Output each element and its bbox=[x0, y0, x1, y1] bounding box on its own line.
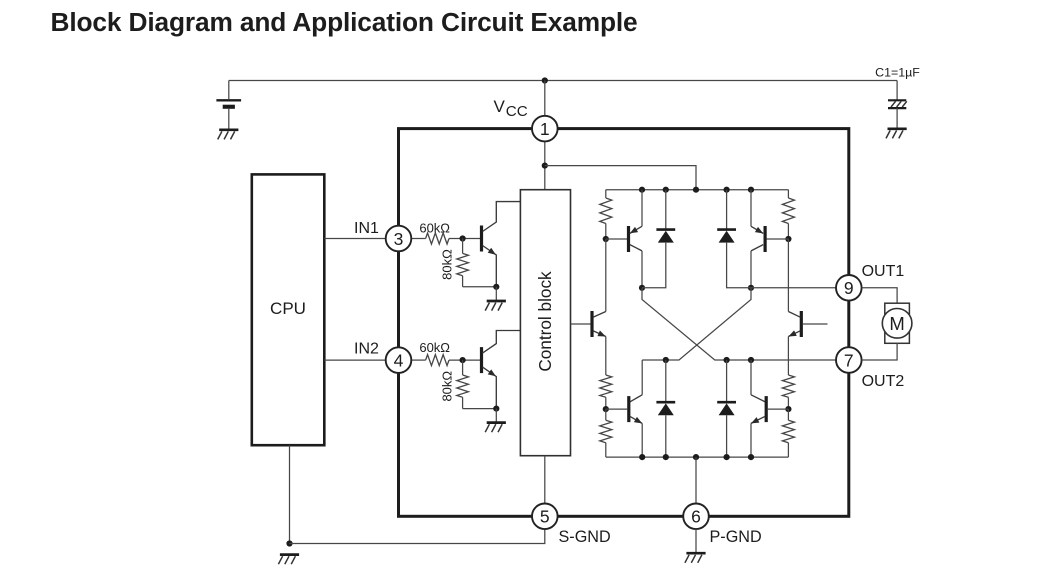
wire bridge VCC rail bbox=[606, 189, 789, 191]
ground P-GND bbox=[686, 552, 705, 555]
wire cross OUT1 node to lower-left bbox=[642, 288, 751, 360]
wire R10 to bottom rail bbox=[787, 443, 789, 457]
wire Q1 emitter to ground bbox=[495, 287, 497, 301]
ground CPU bbox=[280, 553, 299, 556]
motor M body bbox=[885, 303, 910, 343]
wire control block to pin 5 bbox=[544, 456, 546, 504]
transistor Q1 base bar bbox=[480, 226, 483, 252]
transistor Q6 base bar bbox=[765, 396, 768, 422]
control block bbox=[520, 190, 570, 456]
svg-text:9: 9 bbox=[844, 278, 854, 298]
transistor Q7 emitter bbox=[593, 331, 606, 337]
pin 1 VCC bbox=[532, 116, 558, 142]
wire C1 to rail bbox=[896, 81, 898, 101]
pin 9 OUT1 bbox=[836, 275, 862, 301]
wire Q2 emitter to ground bbox=[495, 409, 497, 422]
wire rail to R5 bbox=[605, 190, 607, 198]
wire C1 to ground bbox=[896, 108, 898, 128]
transistor Q3 base bar bbox=[627, 226, 630, 252]
node OUT2 Q6 collector bbox=[748, 357, 754, 363]
transistor Q2 base bar bbox=[480, 347, 483, 373]
wire Q5 base bbox=[606, 408, 628, 410]
svg-text:Block Diagram and Application: Block Diagram and Application Circuit Ex… bbox=[51, 7, 638, 37]
resistor R7 (Q5 base pull-down) bbox=[600, 420, 612, 442]
svg-text:M: M bbox=[889, 313, 904, 334]
node bottom rail D3 anode bbox=[663, 454, 669, 460]
node bottom rail D4 anode bbox=[724, 454, 730, 460]
node top rail supply entry bbox=[693, 187, 699, 193]
svg-text:V: V bbox=[494, 97, 506, 116]
wire rail to pin 1 bbox=[544, 81, 546, 117]
resistor R8 (Q4 base pull-up) bbox=[782, 198, 794, 224]
wire pin1 branch to bridge rail bbox=[545, 166, 696, 190]
resistor R9 (Q8 emitter) bbox=[782, 375, 794, 397]
pin 7 OUT2 bbox=[836, 347, 862, 373]
wire Q8 emitter to R9 bbox=[787, 337, 789, 376]
resistor R3 60kΩ (IN2) bbox=[426, 355, 449, 366]
node OUT2 D3 top bbox=[663, 357, 669, 363]
wire R3 to Q2 base bbox=[449, 359, 480, 361]
svg-text:CC: CC bbox=[506, 103, 528, 120]
node Q1 base junction bbox=[460, 235, 466, 241]
wire bridge ground rail bbox=[606, 456, 789, 458]
node Q2 base junction bbox=[460, 357, 466, 363]
svg-text:CPU: CPU bbox=[270, 299, 306, 318]
node Q2 emitter junction bbox=[493, 406, 499, 412]
node OUT1 junction bbox=[748, 285, 754, 291]
svg-text:80kΩ: 80kΩ bbox=[440, 249, 455, 280]
wire Q4 base node to Q8 collector bbox=[787, 239, 789, 312]
wire R1 to Q1 base bbox=[449, 238, 480, 240]
transistor Q8 emitter bbox=[788, 331, 800, 337]
transistor Q3 emitter bbox=[641, 190, 643, 227]
svg-text:7: 7 bbox=[844, 350, 854, 370]
wire Q7 emitter to R6 bbox=[605, 337, 607, 376]
wire VCC supply rail bbox=[229, 80, 897, 82]
resistor R2 80kΩ (IN1 pulldown) bbox=[462, 239, 464, 254]
wire R7 to bottom rail bbox=[605, 443, 607, 457]
wire Q3 base bbox=[606, 238, 627, 240]
svg-text:C1=1µF: C1=1µF bbox=[875, 66, 920, 80]
node Q4 base junction bbox=[785, 236, 791, 242]
wire Q4 base bbox=[767, 238, 789, 240]
node Q5 base junction bbox=[603, 406, 609, 412]
svg-text:60kΩ: 60kΩ bbox=[419, 221, 450, 236]
resistor R4 80kΩ (IN2 pulldown) bbox=[462, 360, 464, 375]
transistor Q5 emitter bbox=[630, 416, 642, 423]
svg-text:OUT1: OUT1 bbox=[862, 263, 905, 280]
wire Q3 base node to Q7 collector bbox=[605, 239, 607, 312]
transistor Q5 collector bbox=[641, 360, 643, 395]
wire R6 to Q5 base node bbox=[605, 397, 607, 409]
ground Q1 bbox=[487, 300, 506, 303]
transistor Q4 base bar bbox=[763, 226, 766, 252]
node OUT2 D4 top bbox=[724, 357, 730, 363]
wire bottom rail to pin 6 bbox=[695, 457, 697, 503]
node top rail D2 cathode bbox=[724, 187, 730, 193]
wire Q8 base stub bbox=[803, 323, 828, 325]
resistor R1 60kΩ (IN1) bbox=[426, 233, 449, 244]
svg-text:Control block: Control block bbox=[535, 271, 555, 372]
wire S-GND return bbox=[290, 529, 545, 543]
transistor Q6 emitter bbox=[751, 416, 765, 423]
wire R4 to Q2 emitter node bbox=[463, 408, 497, 410]
wire IN2 CPU to pin 4 bbox=[324, 359, 385, 361]
node bottom rail P-GND entry bbox=[693, 454, 699, 460]
ground C1 bbox=[888, 127, 907, 130]
wire R8 to Q4 base node bbox=[787, 224, 789, 240]
transistor Q1 collector bbox=[483, 202, 521, 232]
wire pin 9 to motor bbox=[862, 288, 898, 303]
svg-text:P-GND: P-GND bbox=[710, 528, 762, 546]
transistor Q6 collector bbox=[750, 360, 752, 395]
wire motor to pin 7 bbox=[862, 343, 898, 360]
svg-text:5: 5 bbox=[540, 507, 550, 527]
wire CPU to ground node bbox=[289, 445, 291, 543]
diode D2 (upper right) bbox=[726, 190, 728, 229]
transistor Q7 driver base bar bbox=[590, 311, 593, 337]
wire R2 to Q1 emitter node bbox=[463, 286, 497, 288]
transistor Q4 emitter bbox=[750, 190, 752, 227]
transistor Q1 emitter bbox=[483, 246, 497, 287]
pin 3 IN1 bbox=[386, 226, 412, 252]
svg-text:4: 4 bbox=[394, 350, 404, 370]
transistor Q3 collector bbox=[630, 245, 642, 251]
node top rail Q4 emitter bbox=[748, 187, 754, 193]
wire R9 to Q6 base node bbox=[787, 397, 789, 409]
svg-text:OUT2: OUT2 bbox=[862, 373, 905, 390]
wire Q6 base node to R10 bbox=[787, 409, 789, 420]
capacitor C1 bbox=[888, 99, 906, 101]
node VCC rail junction bbox=[542, 77, 548, 83]
wire pin1 to control block bbox=[544, 141, 546, 190]
node pin1 branch bbox=[542, 163, 548, 169]
node top rail Q3 emitter bbox=[639, 187, 645, 193]
svg-text:S-GND: S-GND bbox=[559, 528, 611, 546]
transistor Q7 collector bbox=[593, 312, 606, 318]
svg-text:1: 1 bbox=[540, 119, 550, 139]
wire control block to Q7 base bbox=[571, 323, 591, 325]
svg-text:6: 6 bbox=[691, 507, 701, 527]
diode D3 (lower left) bbox=[665, 360, 667, 402]
wire rail to R8 bbox=[787, 190, 789, 198]
CPU block bbox=[252, 174, 324, 445]
node CPU ground junction bbox=[286, 540, 292, 546]
wire battery to ground bbox=[228, 109, 230, 129]
transistor Q4 collector bbox=[751, 245, 763, 251]
pin 4 IN2 bbox=[386, 347, 412, 373]
node Q1 emitter junction bbox=[493, 284, 499, 290]
svg-text:80kΩ: 80kΩ bbox=[440, 371, 455, 402]
wire IN1 CPU to pin 3 bbox=[324, 238, 385, 240]
wire Q6 base bbox=[768, 408, 789, 410]
node Q6 base junction bbox=[785, 406, 791, 412]
resistor R5 (Q3 base pull-up) bbox=[600, 198, 612, 224]
svg-text:3: 3 bbox=[394, 229, 404, 249]
node top rail D1 cathode bbox=[663, 187, 669, 193]
resistor R6 (Q7 emitter) bbox=[600, 375, 612, 397]
wire cross node A to OUT2 bbox=[642, 288, 836, 360]
transistor Q5 base bar bbox=[627, 396, 630, 422]
node bottom rail Q6 emitter bbox=[748, 454, 754, 460]
resistor R10 (Q6 base pull-down) bbox=[782, 420, 794, 442]
wire Q5 base node to R7 bbox=[605, 409, 607, 420]
svg-text:60kΩ: 60kΩ bbox=[419, 340, 450, 355]
node OUT-A junction bbox=[639, 285, 645, 291]
motor M circle bbox=[882, 309, 912, 339]
ground battery bbox=[219, 128, 238, 131]
node Q3 base junction bbox=[603, 236, 609, 242]
pin 5 S-GND bbox=[532, 504, 558, 530]
svg-text:IN2: IN2 bbox=[354, 341, 379, 358]
transistor Q2 collector bbox=[483, 331, 521, 354]
transistor Q8 collector bbox=[788, 312, 800, 318]
wire pin4 to R3 bbox=[411, 359, 425, 361]
svg-text:IN1: IN1 bbox=[354, 220, 379, 237]
wire node A to D1 anode bbox=[642, 243, 666, 288]
battery B1 negative plate bbox=[223, 105, 235, 109]
wire D2 anode to node OUT1 bbox=[727, 243, 751, 288]
ground Q2 bbox=[487, 421, 506, 424]
pin 6 P-GND bbox=[683, 504, 709, 530]
wire OUT1 to pin 9 bbox=[751, 287, 836, 289]
diode D4 (lower right) bbox=[726, 360, 728, 402]
wire battery to rail bbox=[228, 81, 230, 100]
node bottom rail Q5 emitter bbox=[639, 454, 645, 460]
transistor Q2 emitter bbox=[483, 367, 497, 409]
transistor Q8 driver base bar bbox=[800, 311, 803, 337]
wire R5 to Q3 base node bbox=[605, 224, 607, 240]
battery B1 positive plate bbox=[216, 99, 241, 101]
IC block outline bbox=[399, 129, 849, 517]
diode D1 (upper left) bbox=[665, 190, 667, 229]
wire pin3 to R1 bbox=[411, 238, 425, 240]
wire pin 6 to ground bbox=[695, 529, 697, 553]
